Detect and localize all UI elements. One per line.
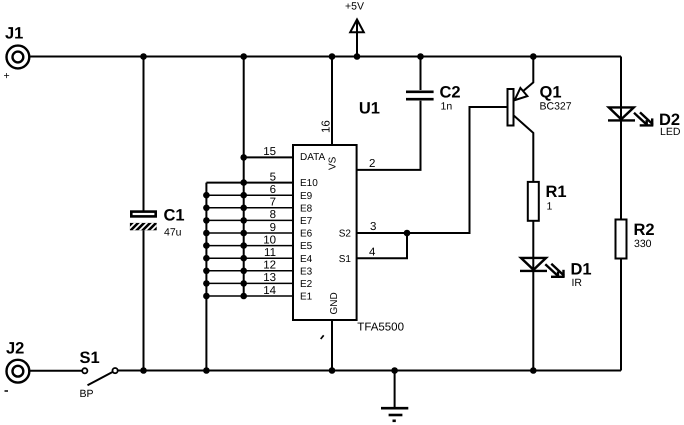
junction +5V symbol on +V rail xyxy=(354,53,361,60)
junction C2 on +V rail xyxy=(417,53,424,60)
junction D1 cathode on GND rail xyxy=(530,367,537,374)
svg-text:DATA: DATA xyxy=(300,152,326,163)
svg-text:10: 10 xyxy=(263,234,276,246)
svg-text:3: 3 xyxy=(370,221,376,233)
svg-text:+: + xyxy=(4,70,10,82)
resistor R2 xyxy=(616,220,655,259)
junction E5 on right bus xyxy=(240,242,247,249)
junction ground symbol on GND rail xyxy=(391,367,398,374)
ground symbol xyxy=(381,408,408,421)
wire E10 pin 5 xyxy=(206,182,293,184)
junction E9 on right bus xyxy=(240,192,247,199)
pin number 1 tick xyxy=(321,335,324,339)
wire +V top rail xyxy=(30,56,621,58)
junction E6 on right bus xyxy=(240,230,247,237)
svg-text:Q1: Q1 xyxy=(540,84,562,102)
wire D2 cathode to R2 xyxy=(620,121,622,220)
junction E3 on left bus xyxy=(203,268,210,275)
LED D1 (IR) xyxy=(520,258,592,289)
svg-text:GND: GND xyxy=(329,292,340,314)
wire +5V stem xyxy=(356,23,358,57)
junction E5 on left bus xyxy=(203,242,210,249)
junction S1-S2 net xyxy=(404,230,411,237)
svg-text:E2: E2 xyxy=(300,279,313,290)
wire E5 pin 10 xyxy=(206,245,293,247)
svg-text:E5: E5 xyxy=(300,241,313,252)
svg-text:1: 1 xyxy=(547,201,553,213)
junction E7 on left bus xyxy=(203,217,210,224)
wire C1 top branch xyxy=(143,57,145,211)
connector J2 xyxy=(5,340,30,392)
svg-text:R2: R2 xyxy=(634,221,655,239)
svg-text:TFA5500: TFA5500 xyxy=(357,322,404,334)
wire D2 anode drop xyxy=(620,57,622,108)
svg-text:15: 15 xyxy=(263,146,276,158)
svg-text:E3: E3 xyxy=(300,266,313,277)
svg-text:U1: U1 xyxy=(359,99,380,117)
junction C1 top on +V rail xyxy=(140,53,147,60)
wire U1 GND pin to rail xyxy=(331,320,333,371)
svg-text:12: 12 xyxy=(263,260,276,272)
IC U1 TFA5500 xyxy=(263,99,404,339)
svg-text:R1: R1 xyxy=(546,183,567,201)
svg-text:S2: S2 xyxy=(339,229,352,240)
svg-text:E6: E6 xyxy=(300,229,313,240)
resistor R1 xyxy=(528,182,567,221)
wire E7 pin 8 xyxy=(206,219,293,221)
svg-text:E9: E9 xyxy=(300,191,313,202)
junction C1 bottom on GND rail xyxy=(140,367,147,374)
junction left bus on GND rail xyxy=(203,367,210,374)
junction E8 on left bus xyxy=(203,205,210,212)
wire E6 pin 9 xyxy=(206,232,293,234)
junction E8 on right bus xyxy=(240,205,247,212)
svg-text:9: 9 xyxy=(270,222,276,234)
wire C2 bottom to pin2 xyxy=(357,101,421,170)
wire DATA pin 15 xyxy=(244,156,293,158)
svg-text:S1: S1 xyxy=(80,349,100,367)
wire Q1 emitter top xyxy=(524,57,534,91)
wire bottom GND rail xyxy=(118,370,621,372)
svg-text:+5V: +5V xyxy=(345,1,364,13)
capacitor C2 xyxy=(406,84,461,113)
wire R1 to D1 xyxy=(532,221,534,258)
svg-text:2: 2 xyxy=(369,158,375,170)
junction U1 VS branch on +V rail xyxy=(329,53,336,60)
junction E4 on left bus xyxy=(203,255,210,262)
svg-text:1n: 1n xyxy=(441,101,453,113)
svg-text:5: 5 xyxy=(270,171,276,183)
svg-text:LED: LED xyxy=(660,126,681,138)
emitter arrow (PNP, open) xyxy=(515,88,528,100)
wire E2 pin 13 xyxy=(206,282,293,284)
wire R2 bottom to rail xyxy=(620,259,622,371)
wire C2 top branch xyxy=(420,57,422,91)
svg-text:47u: 47u xyxy=(164,227,182,239)
junction E6 on left bus xyxy=(203,230,210,237)
junction E2 on left bus xyxy=(203,280,210,287)
svg-text:16: 16 xyxy=(321,120,333,133)
svg-text:13: 13 xyxy=(263,272,276,284)
wire E1 pin 14 xyxy=(206,295,293,297)
wire right bus (DATA/E rail) xyxy=(243,57,245,297)
transistor Q1 BC327 xyxy=(508,84,572,126)
svg-text:E8: E8 xyxy=(300,203,313,214)
wire U1 pin4 S1 to S2 net xyxy=(357,233,407,258)
switch S1 xyxy=(80,349,118,400)
junction right bus on +V rail xyxy=(240,53,247,60)
svg-text:S1: S1 xyxy=(339,254,352,265)
svg-text:14: 14 xyxy=(263,285,276,297)
junction E7 on right bus xyxy=(240,217,247,224)
svg-text:E7: E7 xyxy=(300,216,313,227)
junction Q1 emitter on +V rail xyxy=(530,53,537,60)
svg-text:IR: IR xyxy=(572,277,583,289)
wire ground symbol stem xyxy=(394,371,396,408)
svg-text:6: 6 xyxy=(270,184,276,196)
svg-text:BC327: BC327 xyxy=(540,101,572,113)
wire left bus (E rail) xyxy=(205,183,207,371)
svg-text:8: 8 xyxy=(270,209,276,221)
capacitor C1 xyxy=(126,207,185,239)
svg-text:J2: J2 xyxy=(6,340,24,358)
wire U1 pin16 VS branch xyxy=(331,57,333,146)
junction E3 on right bus xyxy=(240,268,247,275)
svg-text:BP: BP xyxy=(80,388,94,400)
svg-text:C2: C2 xyxy=(440,84,461,102)
wire C1 bottom branch xyxy=(143,230,145,370)
wire E9 pin 6 xyxy=(206,194,293,196)
wire U1 pin3 S2 to Q1 base xyxy=(357,107,508,233)
wire Q1 collector to R1 xyxy=(514,116,533,182)
LED D2 xyxy=(608,107,681,138)
wire E8 pin 7 xyxy=(206,207,293,209)
wire E4 pin 11 xyxy=(206,257,293,259)
junction E1 on left bus xyxy=(203,293,210,300)
junction E9 on left bus xyxy=(203,192,210,199)
svg-text:7: 7 xyxy=(270,197,276,209)
junction E1 on right bus xyxy=(240,293,247,300)
svg-text:D1: D1 xyxy=(571,261,592,279)
junction E10 on right bus xyxy=(240,179,247,186)
wire D1 cathode to rail xyxy=(532,271,534,371)
junction DATA on right bus xyxy=(240,154,247,161)
junction E2 on right bus xyxy=(240,280,247,287)
junction U1 GND pin on GND rail xyxy=(329,367,336,374)
svg-text:E4: E4 xyxy=(300,254,313,265)
+5V supply symbol xyxy=(345,1,364,34)
svg-text:11: 11 xyxy=(264,247,276,259)
wire E3 pin 12 xyxy=(206,270,293,272)
junction E4 on right bus xyxy=(240,255,247,262)
svg-text:VS: VS xyxy=(328,156,339,170)
svg-text:E1: E1 xyxy=(300,292,313,303)
svg-text:E10: E10 xyxy=(300,178,318,189)
wire J2 to S1 xyxy=(30,370,82,372)
svg-text:330: 330 xyxy=(634,238,652,250)
svg-text:C1: C1 xyxy=(164,207,185,225)
svg-text:4: 4 xyxy=(369,246,376,258)
connector J1 xyxy=(4,25,30,83)
svg-text:J1: J1 xyxy=(5,25,23,43)
